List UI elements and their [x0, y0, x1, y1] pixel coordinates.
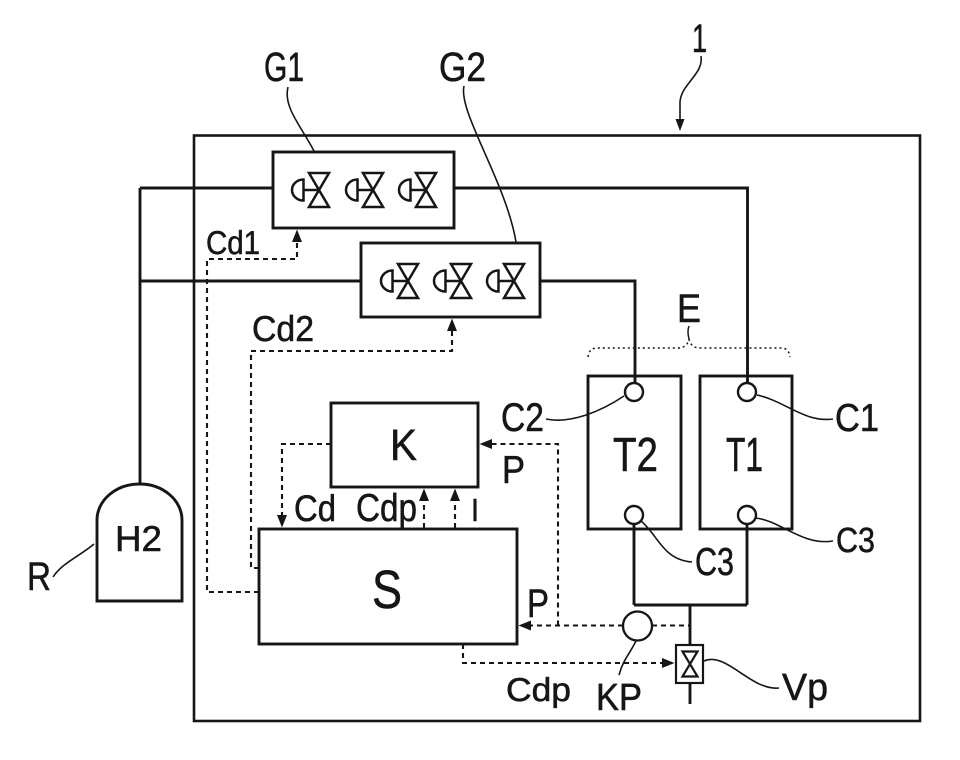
controller box K	[331, 403, 478, 487]
signal Cd2 path	[251, 327, 452, 568]
wire: gas line 1 right to T1	[454, 188, 748, 383]
arrow Cdp into K	[419, 489, 429, 502]
valve 1 of G2	[381, 264, 418, 298]
signal Cdp to Vp	[463, 644, 663, 663]
svg-text:Cdp: Cdp	[356, 487, 417, 530]
svg-text:C3: C3	[695, 541, 734, 584]
signal Cdp to K	[423, 499, 425, 528]
signal P sensor tap	[652, 624, 690, 626]
svg-text:Cd2: Cd2	[252, 308, 314, 349]
signal P to K	[491, 444, 558, 626]
svg-text:Cd1: Cd1	[206, 224, 260, 261]
leader KP	[619, 641, 636, 675]
wire: gas line 2 right to T2	[540, 281, 635, 383]
svg-text:1: 1	[692, 17, 707, 61]
svg-text:P: P	[527, 582, 549, 626]
valve Vp box	[676, 645, 703, 683]
connector C3 (circle on T2 bottom)	[625, 506, 643, 524]
svg-text:R: R	[27, 555, 51, 599]
wire: T1 bottom to manifold	[746, 524, 749, 605]
valve manifold box G2	[361, 243, 540, 317]
arrow Cdp into Vp	[662, 658, 675, 668]
svg-text:C1: C1	[835, 397, 879, 440]
dashed signal lines	[207, 241, 690, 663]
svg-text:T1: T1	[726, 429, 763, 482]
tank T1	[700, 376, 792, 529]
system box S	[259, 529, 517, 644]
leader E peak	[688, 326, 689, 339]
wire: T2 bottom to manifold	[633, 524, 636, 605]
leader G1	[287, 87, 314, 151]
svg-text:C3: C3	[836, 521, 875, 560]
svg-text:T2: T2	[613, 429, 658, 482]
wire: Vp outlet	[689, 683, 692, 704]
svg-text:KP: KP	[596, 677, 642, 719]
svg-text:S: S	[372, 560, 402, 620]
wire: H2 riser	[139, 188, 142, 484]
svg-text:Cd: Cd	[294, 488, 336, 529]
enclosure border 1	[194, 136, 920, 722]
svg-text:Cdp: Cdp	[506, 671, 571, 708]
leader G2	[463, 86, 516, 242]
signal Cd path	[282, 444, 331, 517]
leader R	[53, 544, 94, 577]
connector C3 (circle on T1 bottom)	[738, 506, 756, 524]
leader C3 right	[755, 518, 833, 542]
signal Cd1 path	[207, 241, 297, 592]
wire: drop to valve Vp	[689, 605, 692, 645]
valve 1 of G1	[292, 173, 329, 207]
connector C1 (circle on T1 top)	[738, 383, 756, 401]
arrow Cd2 into G2	[447, 319, 457, 332]
leader C1	[757, 395, 833, 419]
valve 3 of G2	[487, 264, 524, 298]
svg-text:E: E	[677, 287, 701, 331]
wire: gas line 2 left	[140, 280, 361, 283]
pressure sensor KP	[623, 612, 652, 641]
signal I to K	[454, 499, 456, 528]
valve manifold box G1	[273, 152, 454, 228]
svg-text:H2: H2	[115, 518, 162, 559]
valve 3 of G1	[399, 173, 436, 207]
leader Vp	[704, 659, 779, 688]
arrow I into K	[450, 489, 460, 502]
leader C3 left	[641, 521, 692, 562]
valve 2 of G1	[346, 173, 383, 207]
svg-text:G1: G1	[264, 44, 304, 90]
arrow Cd1 into G1	[292, 230, 302, 243]
svg-text:K: K	[390, 421, 417, 470]
arrow P into K	[480, 439, 493, 449]
valve Vp hourglass	[683, 652, 698, 677]
valve 2 of G2	[434, 264, 471, 298]
arrow Cd into S	[277, 515, 287, 528]
wire: gas line 1 left	[140, 187, 273, 190]
tank H2	[97, 484, 182, 601]
svg-text:Vp: Vp	[782, 667, 828, 709]
svg-text:C2: C2	[501, 396, 544, 440]
arrowheads	[277, 230, 675, 669]
leader from 1 to border	[676, 56, 702, 131]
signal P to S	[529, 624, 623, 626]
dotted brace under E	[588, 339, 790, 357]
wire: bottom manifold	[634, 604, 747, 607]
svg-text:G2: G2	[439, 44, 486, 90]
svg-text:P: P	[502, 449, 525, 492]
connector C2 (circle on T2 top)	[625, 383, 643, 401]
svg-text:I: I	[471, 492, 479, 528]
leader C2	[546, 396, 624, 420]
tank T2	[588, 376, 681, 529]
arrow P into S	[519, 621, 532, 631]
